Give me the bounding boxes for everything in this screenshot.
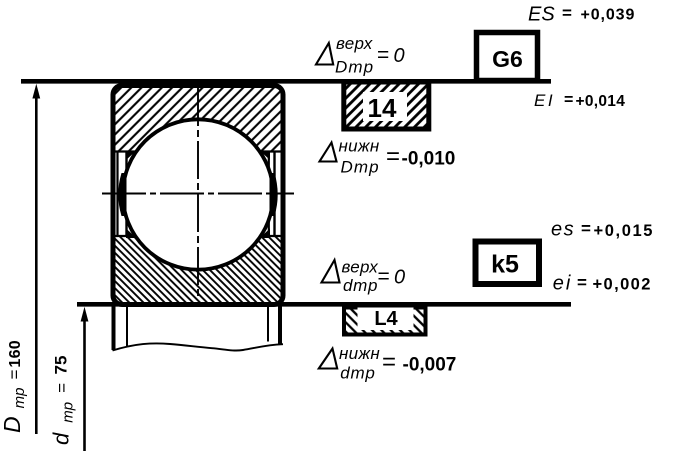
svg-text:=: = xyxy=(562,4,572,23)
svg-text:=: = xyxy=(378,265,390,288)
svg-text:es: es xyxy=(551,219,575,241)
svg-text:верх: верх xyxy=(336,34,373,53)
svg-text:+0,014: +0,014 xyxy=(576,93,626,110)
svg-text:=: = xyxy=(581,219,591,238)
svg-text:нижн: нижн xyxy=(339,344,380,363)
svg-text:=: = xyxy=(577,273,587,292)
svg-text:-0,007: -0,007 xyxy=(403,355,457,376)
svg-text:ei: ei xyxy=(553,273,573,295)
svg-text:ES: ES xyxy=(528,4,555,26)
svg-text:=: = xyxy=(382,349,396,376)
svg-text:+0,002: +0,002 xyxy=(593,276,652,294)
svg-text:14: 14 xyxy=(368,93,397,123)
svg-text:G6: G6 xyxy=(492,46,523,72)
svg-text:EI: EI xyxy=(534,91,555,110)
svg-text:dmp: dmp xyxy=(340,364,375,383)
svg-text:0: 0 xyxy=(394,45,405,67)
svg-text:Dmp: Dmp xyxy=(341,158,380,177)
svg-text:L4: L4 xyxy=(374,308,398,330)
svg-text:=: = xyxy=(377,44,389,67)
svg-text:нижн: нижн xyxy=(339,137,380,156)
svg-text:-0,010: -0,010 xyxy=(402,149,456,170)
svg-text:=: = xyxy=(564,92,573,109)
svg-text:+0,015: +0,015 xyxy=(594,222,655,240)
svg-text:+0,039: +0,039 xyxy=(581,7,636,24)
svg-text:k5: k5 xyxy=(491,251,519,279)
svg-text:верх: верх xyxy=(342,258,379,277)
svg-text:Dmp: Dmp xyxy=(335,58,374,77)
svg-text:=: = xyxy=(386,143,400,170)
svg-text:dmp: dmp xyxy=(343,276,378,295)
svg-text:0: 0 xyxy=(394,266,405,288)
